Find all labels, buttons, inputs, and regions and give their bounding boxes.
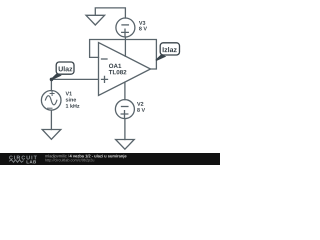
footer bar [0,153,220,165]
footer credit line [45,155,69,159]
wire feedback loop: output to inverting input [90,40,157,70]
junction node dot at Ulaz net [50,78,54,82]
label V3 [139,21,145,25]
label V1 type sine [66,98,76,102]
label V2 value 8 V [137,108,145,112]
op-amp inverting input marker [102,58,108,60]
flag Izlaz (output net) [156,43,180,61]
label V2 [137,102,143,106]
wire ground GND1 to V3 top [95,8,125,18]
flag Ulaz (input net) [51,62,74,79]
label op-amp part TL082 [109,70,127,74]
voltage source V3 [116,18,135,37]
op-amp OA1 triangle body [99,43,151,96]
wire node Ulaz to op-amp non-inverting input [51,78,98,80]
ground GND1 [86,15,105,25]
label V3 value 8 V [139,27,147,31]
wire V1 bottom to ground GND2 [50,110,52,129]
wire V2 bottom to ground GND3 [124,119,126,140]
voltage source V2 [115,100,134,119]
label V1 [66,92,72,96]
voltage source V1 sine [41,91,61,111]
ground GND2 [42,130,61,140]
ground GND3 [116,140,135,150]
label V1 frequency 1 kHz [66,104,80,108]
CircuitLab logo text [9,156,37,160]
footer url line [45,159,94,163]
label op-amp name OA1 [109,64,121,68]
wire V3 bottom to op-amp V+ pin [124,37,126,56]
op-amp non-inverting input marker [102,76,108,82]
wire op-amp V- pin to V2 top [124,82,126,99]
wire node Ulaz down to V1 top [50,79,52,90]
